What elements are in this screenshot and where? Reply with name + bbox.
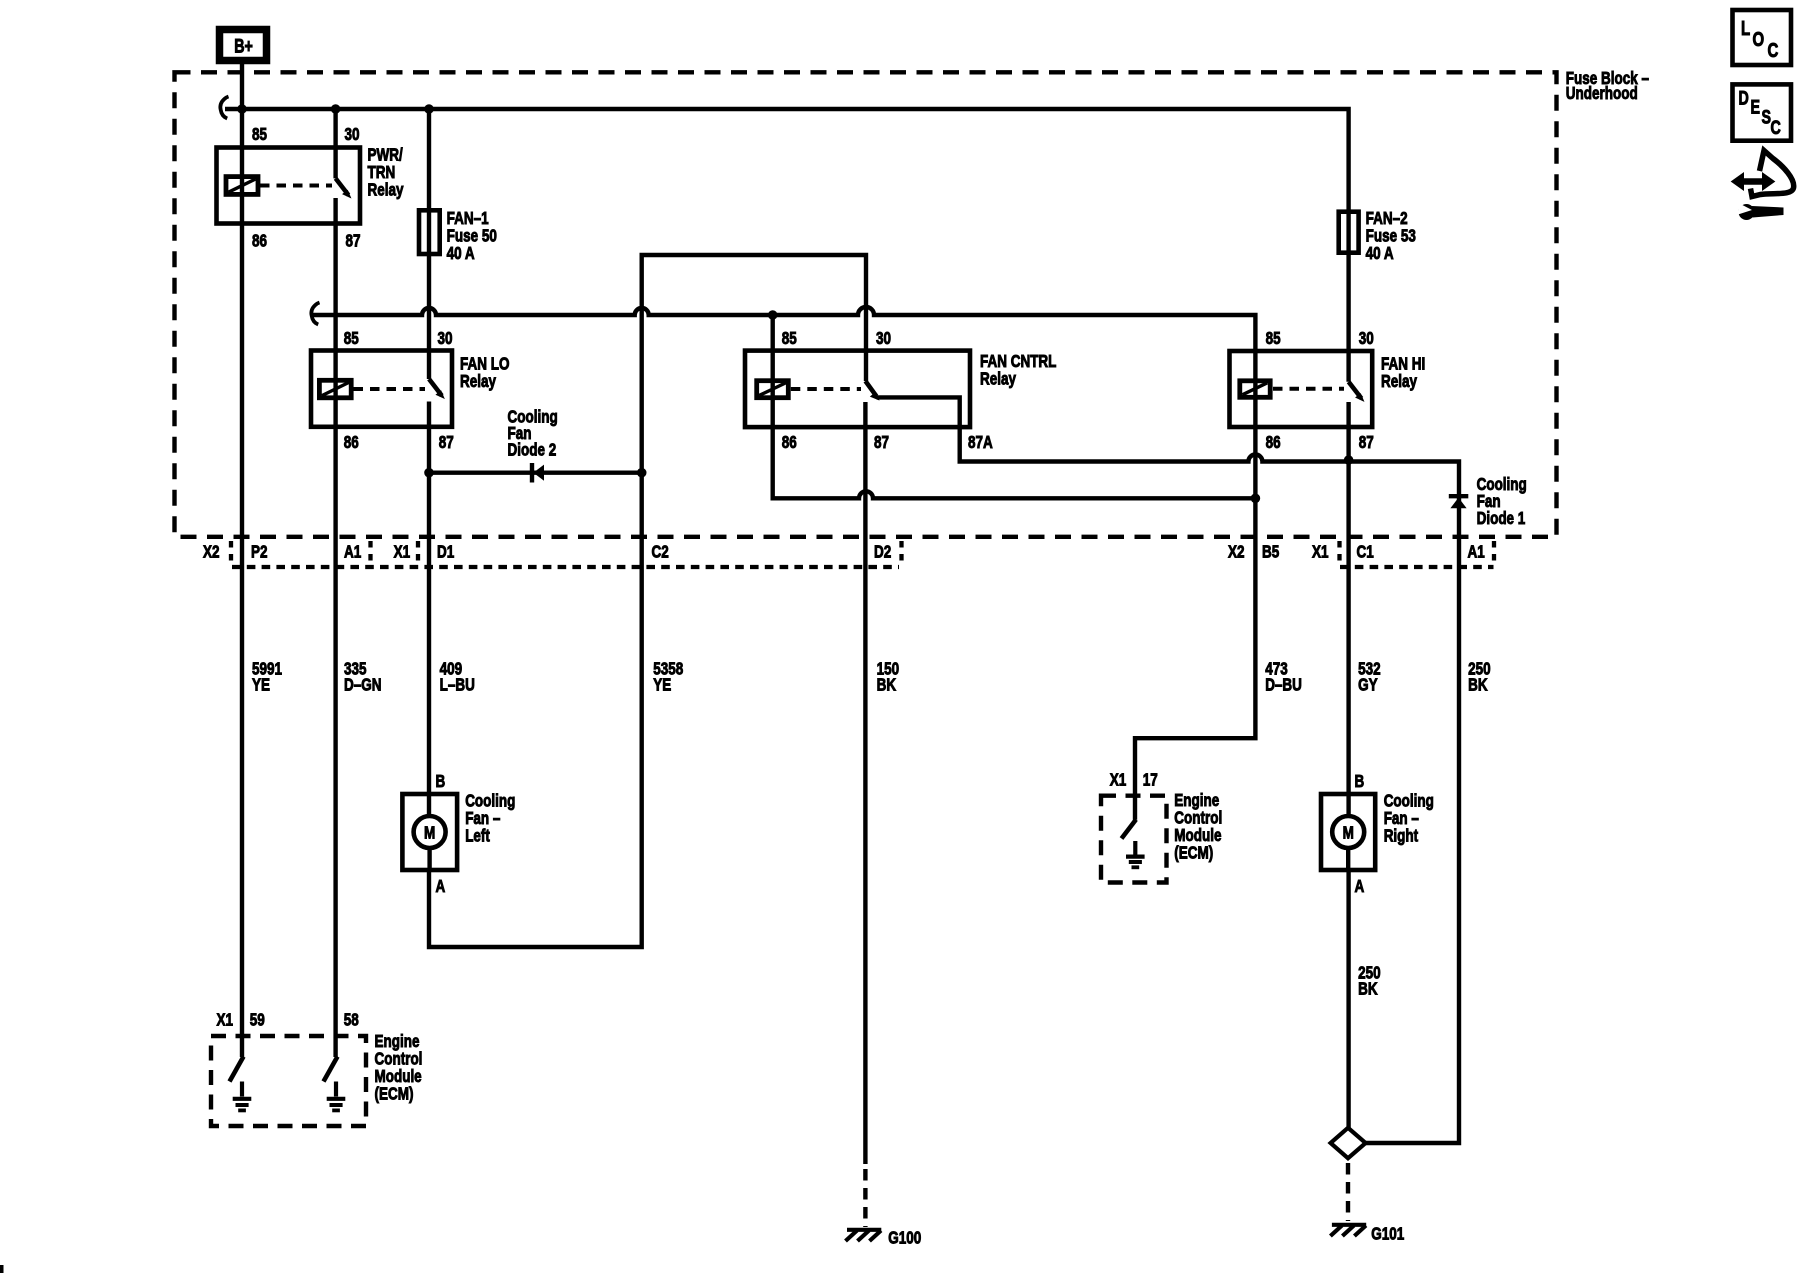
svg-text:30: 30 (438, 329, 453, 348)
relay PWR/TRN switch blade (336, 178, 351, 197)
svg-text:TRN: TRN (368, 163, 396, 182)
svg-text:X1: X1 (217, 1011, 234, 1030)
motor Cooling Fan Right symbol M (1332, 816, 1364, 848)
svg-text:C2: C2 (652, 543, 669, 562)
wire FAN-1 fuse feed to FAN LO pin 30 (427, 109, 431, 379)
svg-text:87: 87 (874, 433, 889, 452)
wire cooling fan diode 2 link FAN LO 87 to 5358 YE (429, 471, 642, 475)
fuse block underhood dashed border (175, 72, 1557, 537)
svg-text:BK: BK (1468, 676, 1488, 695)
wire B+ rail bus with corner into FAN-2 fuse and FAN HI pin 30 (225, 109, 1349, 382)
svg-text:FAN–1: FAN–1 (447, 209, 489, 228)
svg-text:58: 58 (344, 1011, 359, 1030)
diode Cooling Fan Diode 1 symbol (1449, 496, 1469, 508)
svg-text:Right: Right (1384, 827, 1419, 846)
svg-text:B+: B+ (234, 36, 253, 57)
svg-text:Relay: Relay (980, 370, 1016, 389)
svg-text:86: 86 (1266, 433, 1281, 452)
junction node B+ rail / B+ drop (238, 105, 247, 114)
relay FAN LO box (311, 351, 452, 427)
ground symbol inside ECM pin 59 (233, 1082, 252, 1111)
fuse FAN-1 50 40A body (419, 210, 440, 254)
relay FAN HI coil (1240, 381, 1270, 398)
ground G101 chassis symbol (1330, 1225, 1366, 1236)
module ECM right dashed box (1101, 796, 1167, 883)
wire Cooling Fan Right pin A down to splice diamond (1346, 870, 1350, 1128)
junction node diode2 line / FAN LO 87 (425, 468, 434, 477)
continuation curl left of switched rail (311, 303, 319, 325)
relay PWR/TRN pin 30 stub (333, 109, 337, 178)
svg-text:Engine: Engine (375, 1032, 420, 1051)
svg-text:(ECM): (ECM) (1174, 844, 1213, 863)
svg-text:D–BU: D–BU (1265, 676, 1302, 695)
svg-text:X1: X1 (1312, 543, 1329, 562)
svg-text:30: 30 (345, 125, 360, 144)
svg-text:X2: X2 (203, 543, 220, 562)
scan speck artifact bottom left edge (0, 1265, 4, 1273)
svg-text:M: M (424, 824, 435, 843)
connector bracket tick after A1 right (1492, 541, 1496, 567)
relay FAN LO coil-to-switch dashed link (354, 387, 426, 391)
relay FAN CNTRL switch blade (865, 381, 878, 400)
motor Cooling Fan Right box (1321, 794, 1375, 870)
svg-text:A1: A1 (344, 543, 361, 562)
relay FAN HI box (1230, 351, 1373, 427)
svg-text:85: 85 (1266, 329, 1281, 348)
connector row left bracket dotted bottom (232, 565, 899, 569)
svg-text:Fuse 53: Fuse 53 (1366, 227, 1416, 246)
switch blade ECM pin 59 (230, 1057, 244, 1082)
svg-text:30: 30 (876, 329, 891, 348)
continuation curl left of B+ rail (220, 97, 228, 119)
svg-text:85: 85 (344, 329, 359, 348)
svg-text:85: 85 (252, 125, 267, 144)
relay FAN CNTRL box (745, 351, 970, 428)
wire FAN LO pin 87 down to Cooling Fan Left pin B (427, 402, 431, 818)
svg-text:87A: 87A (968, 433, 993, 452)
wire inside Cooling Fan Right motor to pin A (1346, 847, 1350, 870)
svg-text:X1: X1 (394, 543, 411, 562)
svg-text:Module: Module (375, 1067, 422, 1086)
svg-text:40 A: 40 A (1366, 244, 1394, 263)
ground symbol inside ECM pin 17 (1126, 841, 1145, 867)
wire FAN CNTRL pin 87 down to G100 (863, 402, 867, 1164)
svg-text:(ECM): (ECM) (375, 1085, 414, 1104)
svg-text:30: 30 (1359, 329, 1374, 348)
svg-text:Control: Control (375, 1050, 423, 1069)
svg-text:B5: B5 (1262, 543, 1279, 562)
svg-text:L: L (1741, 17, 1750, 40)
svg-text:A: A (1355, 877, 1365, 896)
connector row right bracket dotted bottom (1340, 565, 1494, 569)
svg-text:FAN LO: FAN LO (460, 355, 509, 374)
relay FAN LO switch blade (429, 379, 444, 398)
relay PWR/TRN box (217, 148, 361, 224)
relay PWR/TRN coil (226, 177, 258, 195)
wire dashed drop to G100 (863, 1169, 867, 1227)
junction node 86 link / 473 D-BU line (1251, 494, 1260, 503)
svg-text:L–BU: L–BU (440, 676, 475, 695)
svg-text:D–GN: D–GN (344, 676, 381, 695)
svg-text:Underhood: Underhood (1566, 84, 1638, 103)
svg-text:YE: YE (653, 676, 671, 695)
svg-text:Cooling: Cooling (465, 792, 515, 811)
wire FAN CNTRL pin 86 over to 473 D-BU line (773, 315, 1256, 498)
svg-text:Module: Module (1174, 826, 1221, 845)
svg-text:Relay: Relay (1381, 372, 1417, 391)
icon DESC box (1733, 84, 1792, 140)
svg-text:FAN–2: FAN–2 (1366, 209, 1408, 228)
relay FAN HI coil-to-switch dashed link (1273, 387, 1344, 391)
wire B+ vertical drop through PWR/TRN coil to ECM pin 59 (240, 64, 244, 1057)
fuse FAN-2 53 40A body (1339, 212, 1359, 253)
svg-text:B: B (436, 772, 446, 791)
svg-text:Fuse 50: Fuse 50 (447, 227, 497, 246)
connector bracket tick after X1 left (416, 541, 420, 567)
svg-text:A1: A1 (1468, 543, 1485, 562)
svg-text:86: 86 (252, 232, 267, 251)
svg-text:D: D (1739, 88, 1749, 109)
svg-text:Cooling: Cooling (1384, 792, 1434, 811)
ground G100 chassis symbol (846, 1230, 882, 1241)
motor Cooling Fan Left box (402, 794, 457, 870)
wire FAN HI pin 87 down to Cooling Fan Right pin B (1346, 402, 1350, 817)
svg-text:Relay: Relay (460, 372, 496, 391)
svg-text:C1: C1 (1357, 543, 1374, 562)
wire switched rail to FAN CNTRL 85 and FAN HI 85 then down to ECM X1-17 (313, 307, 1255, 820)
svg-text:A: A (436, 877, 446, 896)
svg-text:X2: X2 (1228, 543, 1245, 562)
svg-text:BK: BK (1358, 980, 1378, 999)
junction node B+ rail / FAN-1 fuse (425, 105, 434, 114)
svg-text:Left: Left (465, 827, 490, 846)
battery feed B+ terminal box (220, 30, 267, 61)
wire FAN CNTRL 87A contact to Cooling Fan Diode 1 and splice (877, 397, 1459, 1143)
diode Cooling Fan Diode 2 symbol (532, 463, 544, 483)
switch blade ECM pin 17 (1122, 820, 1137, 839)
connector bracket tick after X2 (229, 541, 233, 567)
svg-text:M: M (1343, 824, 1354, 843)
svg-text:40 A: 40 A (447, 244, 475, 263)
svg-text:D1: D1 (437, 543, 454, 562)
svg-text:59: 59 (250, 1011, 265, 1030)
svg-text:BK: BK (877, 676, 897, 695)
junction node B+ rail / PWR-TRN pin 30 (331, 105, 340, 114)
svg-text:87: 87 (1359, 433, 1374, 452)
svg-text:C: C (1771, 117, 1781, 138)
svg-text:YE: YE (252, 676, 270, 695)
relay FAN CNTRL coil-to-switch dashed link (791, 387, 861, 391)
svg-text:GY: GY (1358, 676, 1378, 695)
junction node switched rail / FAN CNTRL pin 85 (768, 311, 777, 320)
svg-text:FAN HI: FAN HI (1381, 355, 1425, 374)
svg-text:PWR/: PWR/ (368, 146, 404, 165)
svg-text:S: S (1762, 107, 1772, 128)
svg-text:85: 85 (782, 329, 797, 348)
icon LOC box (1733, 10, 1792, 65)
junction node diode2 line / 5358 YE riser (637, 468, 646, 477)
svg-text:86: 86 (344, 433, 359, 452)
svg-text:Diode 1: Diode 1 (1477, 509, 1526, 528)
connector bracket tick before C1 (1337, 541, 1341, 567)
splice diamond on 250 BK (1331, 1128, 1366, 1158)
svg-text:B: B (1355, 772, 1365, 791)
module ECM left dashed box (211, 1036, 366, 1126)
svg-text:Relay: Relay (368, 181, 404, 200)
wire Cooling Fan Left pin A loop up C2 riser over to FAN CNTRL pin 30 (429, 255, 866, 947)
svg-text:O: O (1753, 28, 1765, 51)
connector bracket tick after A1 left (368, 541, 372, 567)
connector bracket tick after D2 (899, 541, 903, 567)
svg-text:Control: Control (1174, 809, 1222, 828)
svg-text:D2: D2 (874, 543, 891, 562)
svg-text:G100: G100 (888, 1229, 921, 1248)
svg-text:P2: P2 (251, 543, 268, 562)
wire dashed drop to G101 (1346, 1163, 1350, 1221)
relay FAN LO coil (319, 380, 351, 398)
svg-text:C: C (1768, 39, 1779, 62)
svg-text:87: 87 (346, 232, 361, 251)
svg-text:87: 87 (439, 433, 454, 452)
junction node FAN HI 87 / 87A line (1344, 456, 1353, 465)
svg-text:Engine: Engine (1174, 791, 1219, 810)
switch blade ECM pin 58 (324, 1057, 338, 1082)
svg-text:X1: X1 (1110, 771, 1127, 790)
motor Cooling Fan Left symbol M (414, 816, 446, 848)
wire PWR/TRN pin 87 down through FAN LO coil to ECM pin 58 (333, 198, 337, 1057)
ground symbol inside ECM pin 58 (327, 1082, 346, 1111)
svg-text:17: 17 (1143, 771, 1158, 790)
svg-text:Fan –: Fan – (1384, 809, 1419, 828)
wire inside Cooling Fan Left motor to pin A (427, 847, 431, 870)
relay FAN HI switch blade (1349, 382, 1364, 401)
svg-text:Fan –: Fan – (465, 809, 500, 828)
icon two-way arrow with wrench (1732, 151, 1794, 221)
svg-text:86: 86 (782, 433, 797, 452)
svg-text:E: E (1751, 97, 1761, 118)
svg-text:G101: G101 (1371, 1225, 1404, 1244)
relay PWR/TRN coil-to-switch dashed link (260, 184, 332, 188)
svg-text:Diode 2: Diode 2 (508, 441, 557, 460)
relay FAN CNTRL coil (757, 381, 789, 398)
svg-text:FAN CNTRL: FAN CNTRL (980, 352, 1057, 371)
